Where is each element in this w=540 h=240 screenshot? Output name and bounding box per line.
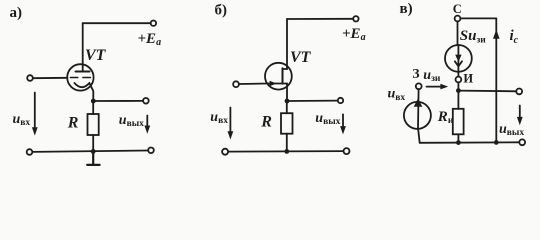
wire source to I terminal [457,72,459,77]
wire ic branch vertical [495,18,497,142]
node output terminal b [338,98,343,103]
svg-text:ic: ic [510,28,519,46]
svg-text:З: З [412,66,419,81]
tube VT envelope [67,64,93,90]
current source arrowhead [455,55,461,62]
wire I to junction [457,82,459,90]
svg-text:uвых: uвых [119,113,144,129]
wire Z to source circle [417,89,420,128]
bottom rail b [228,150,344,153]
svg-text:uвх: uвх [210,110,228,126]
svg-text:+Ea: +Ea [342,26,366,43]
wire source circle to rail [418,129,420,143]
svg-text:R: R [260,114,272,131]
node input terminal b [233,81,239,87]
node rail-right terminal b [344,148,350,154]
node output terminal a [143,98,149,104]
wire junction to resistor [92,101,94,114]
node rail-right terminal v [519,139,525,145]
svg-text:uвых: uвых [499,122,524,138]
wire resistor to rail b [286,134,288,152]
source u_vx arrowhead [414,98,423,106]
node rail junction ic [494,140,499,145]
svg-text:И: И [463,72,473,86]
node +Ea terminal a [151,21,156,26]
wire output a [93,100,143,102]
node I terminal [456,77,462,83]
transistor VT source lead [283,84,288,102]
source u_vx circle [404,102,431,129]
bottom rail v [420,141,520,144]
arrow u_vyx b [342,114,344,129]
wire anode to supply [83,22,151,24]
transistor VT gate arrow [267,83,283,85]
svg-text:uвх: uвх [388,87,406,103]
svg-text:R: R [67,115,79,132]
node rail-left terminal b [222,149,228,155]
wire C to ic branch [460,17,496,19]
current source circle [445,45,472,72]
node I junction [456,88,461,93]
transistor VT envelope [265,63,292,90]
node source junction b [285,99,290,104]
svg-text:в): в) [400,1,413,17]
tube VT anode plate [76,71,90,73]
wire C to source [457,21,459,45]
node cathode junction a [91,99,96,104]
svg-text:VT: VT [85,47,107,64]
arrow u_zi [427,86,444,88]
transistor VT drain lead [283,19,288,69]
tube VT grid dashes [70,77,90,79]
arrow u_vx b [229,108,231,135]
wire junction to Ri [457,91,459,109]
svg-text:uзи: uзи [423,68,441,84]
node C terminal [455,16,461,22]
arrow u_vyx a [146,116,148,129]
resistor Ri [453,109,464,135]
wire gate b [239,83,267,86]
node rail-left terminal a [27,149,33,155]
bottom rail a [32,151,148,152]
node rail junction Ri [456,140,461,145]
wire drain to supply b [287,18,353,20]
arrow i_c [493,30,500,39]
svg-text:+Ea: +Ea [138,31,162,48]
resistor R b [281,113,293,134]
node output-top terminal v [516,89,522,95]
svg-text:uвх: uвх [13,112,31,128]
resistor R a [88,114,99,135]
node rail junction a [91,149,96,154]
wire source to resistor b [286,101,288,113]
wire input a [33,77,67,79]
current source chevron [455,61,462,66]
tube VT cathode arc [74,83,89,87]
node Z terminal [416,83,422,89]
ground [87,151,99,165]
tube VT cathode lead [89,83,93,101]
svg-text:С: С [453,2,462,16]
transistor VT channel [282,68,284,83]
wire output b [287,100,338,102]
node input terminal a [27,75,33,81]
node rail junction b [284,149,289,154]
wire I to output terminal [458,90,516,93]
arrow u_vx a [34,93,36,131]
arrow u_vyx v [519,106,521,121]
svg-text:Rи: Rи [437,109,454,126]
svg-text:uвых: uвых [315,111,340,127]
node rail-right terminal a [148,148,154,154]
wire resistor to rail [92,135,94,151]
svg-text:а): а) [10,5,23,21]
wire Ri to rail [457,134,459,142]
node +Ea terminal b [353,16,358,21]
tube VT anode lead [82,23,84,71]
svg-text:VT: VT [290,49,312,66]
current source internal wire [457,45,459,72]
svg-text:Suзи: Suзи [460,28,487,45]
svg-text:б): б) [215,3,228,19]
